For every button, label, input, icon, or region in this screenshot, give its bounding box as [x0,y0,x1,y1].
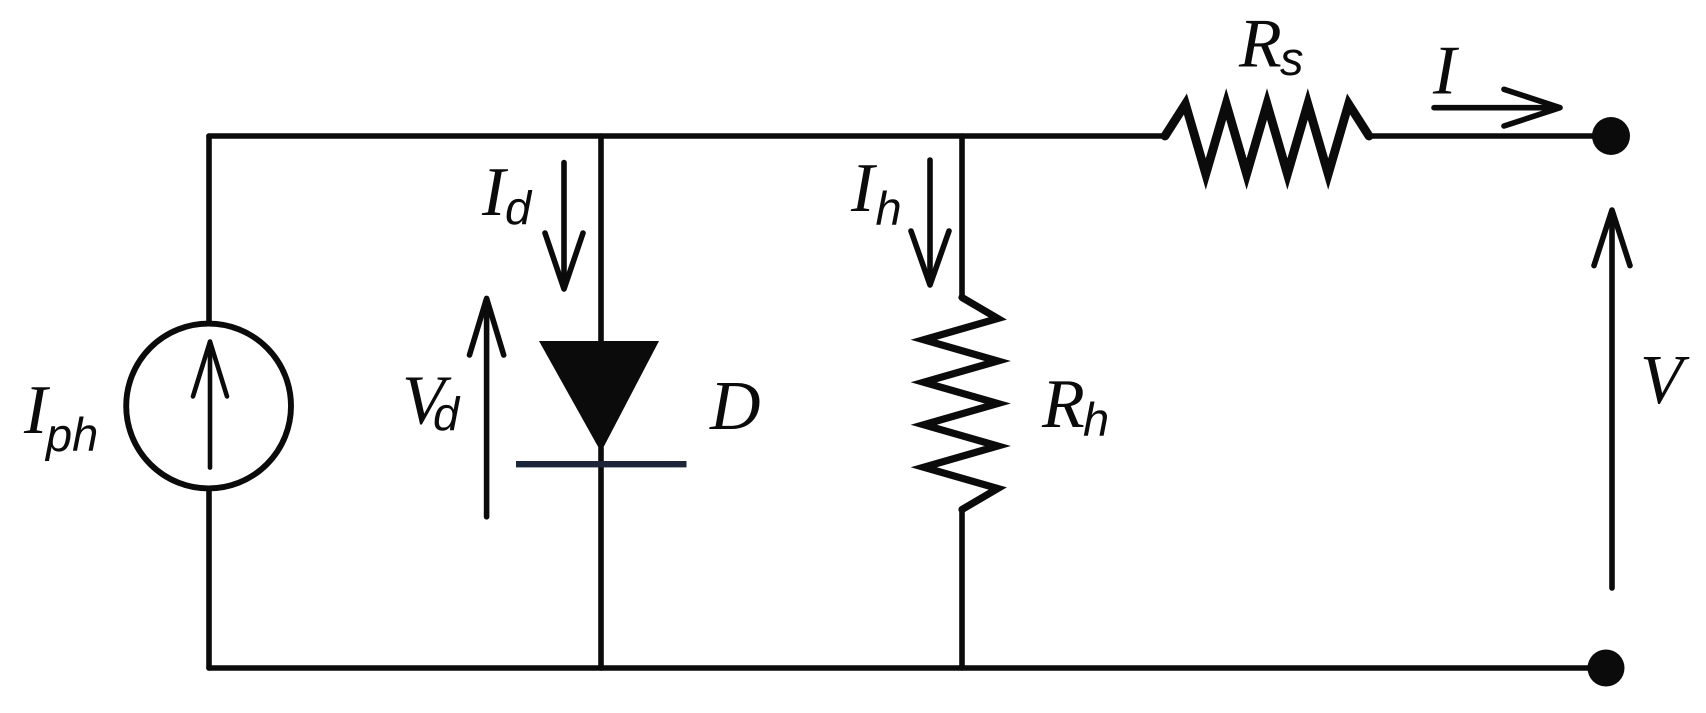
svg-text:h: h [876,182,902,235]
svg-text:s: s [1280,32,1304,85]
svg-text:d: d [505,182,533,235]
svg-text:I: I [1432,33,1460,110]
svg-text:I: I [850,150,878,227]
svg-text:D: D [709,368,761,445]
svg-text:R: R [1238,6,1282,83]
svg-text:d: d [433,388,461,441]
svg-text:h: h [1083,393,1109,446]
svg-text:ph: ph [44,408,98,461]
svg-text:V: V [1640,342,1690,419]
svg-text:R: R [1041,366,1085,443]
